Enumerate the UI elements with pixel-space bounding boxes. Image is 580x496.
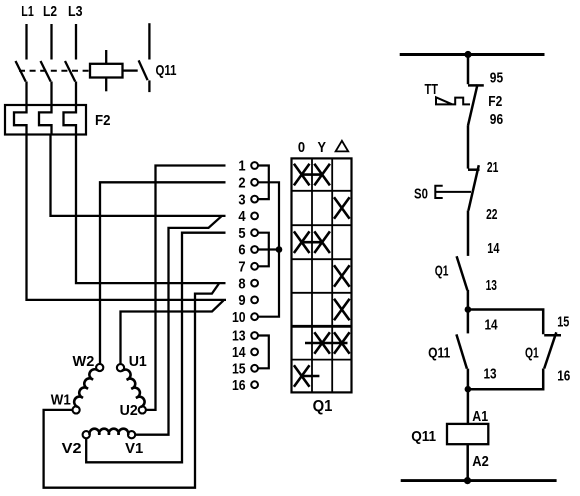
wire right branch down — [468, 369, 543, 390]
terminal 3 — [251, 196, 258, 203]
svg-text:7: 7 — [238, 259, 245, 276]
X mark row7 col0 — [294, 365, 310, 387]
svg-text:L2: L2 — [43, 3, 57, 20]
svg-text:F2: F2 — [95, 112, 111, 129]
svg-text:10: 10 — [232, 309, 246, 326]
wire W1 to bottom rail to terminal 8 jog — [44, 284, 219, 488]
contact S0 NC arm — [468, 165, 478, 210]
junction top rail — [464, 51, 471, 58]
contact F2 fixed tick — [468, 84, 484, 87]
svg-text:22: 22 — [486, 206, 497, 223]
bridge line row6 — [305, 342, 348, 345]
wire bracket 1-3 — [258, 166, 269, 200]
wire top supply rail — [400, 53, 545, 56]
svg-text:V1: V1 — [125, 440, 143, 457]
coil Q11 — [447, 424, 488, 444]
pushbutton cap S0 — [435, 186, 442, 198]
wire bracket 13-15 — [258, 336, 269, 369]
svg-text:16: 16 — [557, 368, 570, 385]
wire T3 to terminal 8 — [76, 135, 226, 284]
X mark row5 colD — [334, 299, 350, 321]
X mark row4 colD — [334, 265, 350, 287]
svg-text:13: 13 — [486, 277, 497, 294]
aux contact Q11 bottom stub — [148, 80, 150, 92]
pushbutton rod S0 — [436, 191, 471, 193]
terminal 9 — [251, 297, 258, 304]
svg-text:5: 5 — [238, 225, 245, 242]
wire terminal 6 link — [258, 248, 279, 250]
motor terminal W2 — [96, 364, 103, 371]
wire L3 drop — [75, 24, 77, 60]
svg-text:13: 13 — [484, 366, 497, 383]
wire bracket 5-7 — [258, 233, 269, 267]
cam table row line 3-4 — [292, 258, 352, 260]
cam table row line 5-6 thick — [292, 325, 352, 328]
X mark row1 col0 — [294, 164, 310, 186]
cam table row line 4-5 — [292, 292, 352, 294]
overload relay F2 box — [5, 105, 86, 135]
stub below actuator — [105, 78, 107, 92]
svg-text:S0: S0 — [414, 185, 428, 202]
wire Q11 contact to junction B — [467, 369, 470, 390]
cam table border — [292, 158, 352, 392]
junction bottom rail — [464, 477, 471, 484]
X mark row1 colY — [314, 164, 330, 186]
motor terminal W1 — [73, 406, 80, 413]
cam table column line 2 — [331, 158, 333, 392]
svg-text:15: 15 — [557, 313, 569, 330]
wire Q1 to junction — [467, 290, 470, 310]
contact Q1 NO arm — [457, 256, 468, 290]
motor terminal V2 — [83, 431, 90, 438]
terminal 16 — [251, 381, 258, 388]
svg-text:Y: Y — [318, 139, 327, 156]
svg-text:U1: U1 — [129, 353, 147, 370]
bridge line row3 — [302, 241, 322, 244]
thermal trip flag — [436, 97, 452, 104]
stub above actuator — [105, 50, 107, 64]
X mark row3 col0 — [294, 231, 310, 253]
link actuator to aux contact — [123, 69, 138, 71]
aux contact Q11 arm — [139, 60, 148, 80]
wire L1 drop — [25, 24, 27, 60]
contact Q11 main pole 2 — [41, 61, 51, 82]
wire pole3 to F2 — [75, 82, 77, 106]
svg-text:A2: A2 — [472, 453, 489, 470]
terminal 6 — [251, 246, 258, 253]
wire coil to bottom rail — [466, 444, 469, 480]
terminal 5 — [251, 229, 258, 236]
svg-text:15: 15 — [232, 361, 246, 378]
wire junction B to coil — [467, 389, 470, 424]
wire terminal 5 to V2 — [86, 233, 225, 463]
svg-text:0: 0 — [298, 139, 305, 156]
svg-text:L1: L1 — [21, 3, 34, 20]
svg-text:U2: U2 — [120, 402, 138, 419]
svg-text:V2: V2 — [62, 440, 82, 457]
motor terminal U1 — [117, 364, 124, 371]
svg-text:6: 6 — [238, 242, 245, 259]
bridge line row7 — [302, 375, 320, 378]
mechanical link dashed — [19, 70, 90, 72]
wire F2 to S0 — [467, 126, 470, 169]
wire V1 riser to terminal 4 jog — [135, 216, 222, 435]
svg-text:14: 14 — [232, 344, 246, 361]
terminal 2 — [251, 179, 258, 186]
terminal 8 — [251, 280, 258, 287]
cam table row line 2-3 — [292, 224, 352, 226]
bridge line row1 — [302, 173, 322, 176]
svg-text:13: 13 — [232, 328, 246, 345]
heater element pole2 — [39, 105, 52, 135]
wire terminal 1 to U2 — [146, 166, 226, 410]
contact Q1b NO arm — [544, 332, 556, 368]
svg-text:Q11: Q11 — [428, 345, 450, 362]
X mark row2 colD — [334, 197, 350, 219]
svg-text:F2: F2 — [488, 93, 502, 110]
svg-text:21: 21 — [487, 159, 499, 176]
junction on bracket at 6 — [276, 246, 283, 253]
wire pole1 to F2 — [25, 82, 27, 106]
wire bracket 2-6-10 — [258, 182, 279, 316]
wire L2 drop — [50, 24, 52, 60]
contact Q11 main pole 3 — [65, 61, 75, 82]
wire T2 to terminal 4 — [51, 135, 226, 216]
contact Q11 main pole 1 — [16, 61, 26, 82]
contact F2 NC arm — [468, 85, 478, 126]
svg-text:9: 9 — [238, 292, 245, 309]
actuator box Q11 — [90, 64, 123, 78]
wire rail to F2 contact — [467, 55, 470, 85]
terminal 10 — [251, 313, 258, 320]
motor terminal V1 — [128, 431, 135, 438]
contact S0 fixed tick — [468, 168, 480, 171]
junction node A — [465, 306, 472, 313]
wire S0 to Q1 — [467, 211, 470, 256]
svg-text:14: 14 — [485, 316, 499, 333]
thermal trip linkage — [452, 98, 470, 105]
svg-text:1: 1 — [238, 158, 245, 175]
wire terminal 2 to W2 — [100, 182, 226, 364]
svg-text:A1: A1 — [472, 408, 488, 425]
terminal 7 — [251, 263, 258, 270]
svg-text:3: 3 — [238, 191, 245, 208]
heater element pole3 — [64, 105, 77, 135]
cam table row line 1-2 — [292, 190, 352, 192]
cam table row line 6-7 — [292, 359, 352, 361]
terminal 1 — [251, 162, 258, 169]
svg-text:Q1: Q1 — [525, 344, 539, 361]
terminal 15 — [251, 365, 258, 372]
winding W2-W1 — [74, 369, 98, 407]
contact Q11 NO arm — [456, 334, 467, 368]
svg-text:L3: L3 — [68, 3, 83, 20]
X mark row6 colD — [334, 332, 350, 354]
wire junction to Q11 contact — [467, 310, 470, 334]
X mark row6 colY — [314, 332, 330, 354]
svg-text:14: 14 — [487, 240, 500, 257]
cam switch table header delta — [336, 141, 349, 152]
svg-text:4: 4 — [238, 208, 246, 225]
svg-text:Q1: Q1 — [435, 263, 449, 280]
motor terminal U2 — [139, 406, 146, 413]
svg-text:Q1: Q1 — [313, 398, 333, 415]
cam table column line 1 — [311, 158, 313, 392]
aux contact Q11 top stub — [148, 23, 150, 59]
terminal 13 — [251, 332, 258, 339]
svg-text:96: 96 — [490, 111, 503, 128]
heater element pole1 — [14, 105, 27, 135]
terminal 14 — [251, 349, 258, 356]
svg-text:8: 8 — [238, 275, 245, 292]
junction node B — [465, 386, 472, 393]
svg-text:W2: W2 — [73, 353, 95, 370]
svg-text:2: 2 — [238, 175, 245, 192]
winding U1-U2 — [122, 370, 145, 407]
svg-text:95: 95 — [490, 69, 503, 86]
svg-text:Q11: Q11 — [156, 62, 177, 79]
terminal 4 — [251, 213, 258, 220]
wire junction to right branch — [468, 310, 543, 335]
winding V2-V1 — [89, 429, 128, 435]
svg-text:TT: TT — [425, 81, 439, 98]
contact Q1b fixed tick — [544, 334, 561, 337]
wire T1 to terminal 9 — [27, 135, 227, 300]
svg-text:16: 16 — [232, 377, 246, 394]
svg-text:W1: W1 — [51, 391, 71, 408]
wire U1 riser to terminal 9 jog — [121, 300, 224, 364]
svg-text:Q11: Q11 — [411, 428, 436, 445]
wire pole2 to F2 — [50, 82, 52, 106]
wire bottom supply rail — [401, 479, 557, 482]
X mark row3 colY — [314, 231, 330, 253]
